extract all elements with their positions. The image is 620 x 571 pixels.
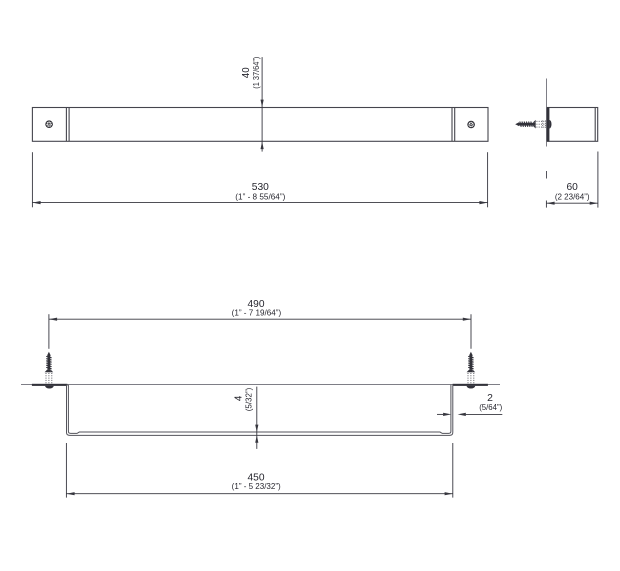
dimension 490 line with arrows bbox=[49, 318, 471, 321]
side view bar section box bbox=[547, 108, 597, 142]
front view right screw head bbox=[467, 121, 475, 129]
plan view channel outer profile bbox=[67, 385, 453, 436]
svg-text:(1 37/64”): (1 37/64”) bbox=[252, 56, 261, 88]
dimension 4 vertical line bbox=[255, 387, 258, 449]
svg-text:60: 60 bbox=[567, 182, 579, 193]
side view screw head bulge bbox=[549, 120, 551, 129]
side view screw (horizontal) bbox=[515, 120, 546, 129]
side view wall line bbox=[546, 79, 548, 179]
svg-text:(2 23/64”): (2 23/64”) bbox=[555, 192, 590, 201]
dimension 40 label bbox=[241, 56, 261, 88]
dimension 2 leader arrows bbox=[437, 413, 502, 416]
svg-text:(5/32”): (5/32”) bbox=[244, 387, 253, 411]
side view end-cap inner line bbox=[594, 108, 596, 142]
front view right end-cap joint lines bbox=[452, 107, 455, 141]
dimension 2 label bbox=[479, 393, 502, 412]
svg-text:(1” - 8 55/64”): (1” - 8 55/64”) bbox=[235, 192, 285, 201]
svg-text:40: 40 bbox=[241, 67, 252, 78]
front view left screw head bbox=[45, 120, 53, 128]
svg-text:(1” - 5 23/32”): (1” - 5 23/32”) bbox=[232, 482, 281, 491]
dimension 450 label bbox=[232, 473, 281, 491]
svg-text:4: 4 bbox=[234, 395, 245, 401]
dimension 40 vertical line bbox=[261, 57, 264, 152]
side view mounting plate (dark) bbox=[547, 107, 550, 141]
dimension 450 line with arrows bbox=[66, 492, 452, 495]
plan view channel inner profile bbox=[68, 385, 451, 434]
dimension 490 extension lines bbox=[49, 314, 471, 349]
plan view wall line bbox=[21, 384, 500, 386]
dimension 530 label bbox=[235, 182, 285, 201]
dimension 490 label bbox=[232, 299, 282, 317]
plan view right mounting plate bbox=[453, 384, 488, 386]
plan view right screw (vertical) bbox=[467, 352, 476, 384]
dimension 530 extension lines bbox=[32, 152, 487, 207]
plan view left screw (vertical) bbox=[45, 352, 54, 384]
dimension 530 line with arrows bbox=[32, 201, 487, 204]
plan view right screw head bulge bbox=[467, 386, 476, 389]
svg-text:530: 530 bbox=[252, 182, 269, 193]
dimension 60 extension lines bbox=[546, 152, 598, 208]
svg-text:(1” - 7 19/64”): (1” - 7 19/64”) bbox=[232, 308, 282, 317]
plan view left screw head bulge bbox=[45, 386, 54, 389]
front view left end-cap joint lines bbox=[66, 107, 69, 141]
dimension 4 label bbox=[234, 387, 254, 411]
front view bar body bbox=[32, 108, 488, 142]
plan view left mounting plate bbox=[32, 384, 68, 386]
dimension 450 extension lines bbox=[66, 443, 452, 498]
dimension 60 label bbox=[555, 182, 590, 201]
dimension 60 line with arrows bbox=[546, 202, 598, 205]
svg-text:(5/64”): (5/64”) bbox=[479, 403, 502, 412]
